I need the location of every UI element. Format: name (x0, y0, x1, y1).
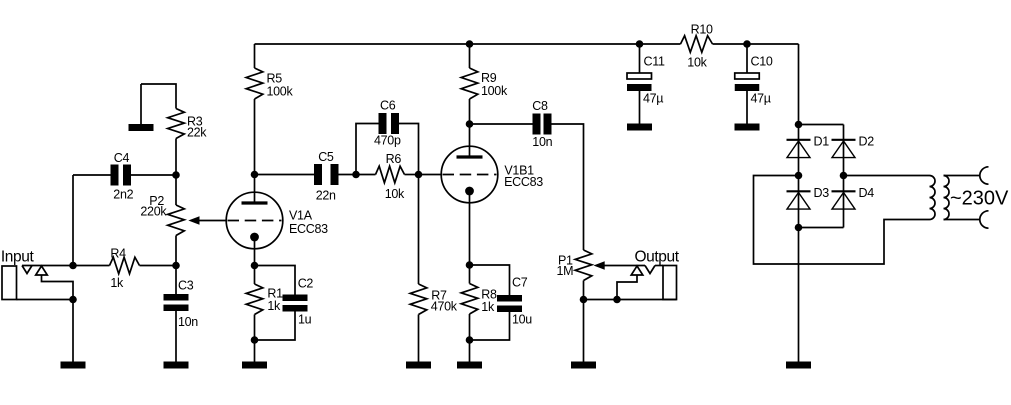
svg-text:C5: C5 (318, 150, 334, 164)
capacitor C3 (164, 294, 189, 311)
svg-text:47µ: 47µ (751, 92, 771, 106)
svg-text:D2: D2 (859, 135, 875, 149)
label R3 (187, 115, 203, 129)
connector J1 input jack body (2, 266, 17, 300)
pin V1A grid dashed (228, 220, 282, 222)
label C3 value 10n (178, 315, 198, 329)
label C5 (318, 150, 334, 164)
ground at R3 top (129, 124, 154, 131)
svg-text:470k: 470k (431, 300, 458, 314)
pin V1A anode plate (242, 201, 268, 204)
wire C11 top lead (639, 44, 641, 73)
wire node to P2 top (175, 175, 177, 205)
wire input jack sleeve rail (17, 299, 74, 301)
wire R3 bottom to node (175, 139, 177, 176)
svg-text:ECC83: ECC83 (504, 175, 543, 189)
wire input sleeve to ground (72, 300, 74, 362)
node P1 bottom junction (580, 296, 588, 304)
capacitor C4 (111, 165, 132, 186)
label C4 (114, 151, 130, 165)
svg-text:V1A: V1A (289, 209, 313, 223)
wire P2 bottom to node (175, 236, 177, 266)
wire anode node to C5 (255, 174, 316, 176)
svg-text:~230V: ~230V (950, 188, 1009, 210)
resistor R6 (376, 166, 405, 183)
node rail/R9 junction (466, 40, 474, 48)
label C2 (298, 277, 314, 291)
label R9 (481, 71, 497, 85)
wire P1 wiper arrow (594, 261, 646, 269)
node bridge top junction (795, 121, 803, 129)
wire B+ rail right segment (713, 43, 799, 45)
svg-text:10k: 10k (687, 56, 707, 70)
ground under C10 (735, 124, 760, 131)
svg-text:C3: C3 (178, 279, 194, 293)
wire C7 top branch (470, 265, 510, 295)
wire R8 node to ground (469, 340, 471, 362)
wire C11 bottom lead (639, 91, 641, 124)
svg-text:ECC83: ECC83 (289, 222, 328, 236)
wire V1B1 grid lead (419, 174, 442, 176)
label R10 (691, 23, 713, 37)
capacitor C6 (379, 113, 400, 134)
svg-text:C4: C4 (114, 151, 130, 165)
svg-text:470p: 470p (374, 134, 401, 148)
terminal mains top (980, 167, 989, 184)
svg-text:R4: R4 (110, 247, 126, 261)
svg-text:R10: R10 (691, 23, 713, 37)
label R1 value 1k (267, 299, 281, 313)
svg-text:C8: C8 (532, 99, 548, 113)
wire C4 right lead (131, 174, 176, 176)
capacitor C10 electrolytic (735, 73, 760, 91)
terminal mains bottom (980, 211, 989, 228)
label R8 (481, 288, 497, 302)
label C11 (644, 55, 665, 69)
wire P2 wiper arrow (188, 216, 226, 224)
potentiometer P2 (168, 205, 185, 236)
label V1B1 (504, 164, 534, 178)
ground under C11 (627, 124, 652, 131)
node A C5/R6/C6 junction (352, 171, 360, 179)
wire mid-right to secondary top (844, 175, 930, 177)
label P2 (149, 194, 164, 208)
transformer TR1 secondary winding (930, 176, 936, 220)
svg-text:C6: C6 (380, 99, 396, 113)
label C2 value 1u (298, 313, 312, 327)
wire R6 right lead (405, 174, 419, 176)
connector input jack tip contact V (22, 266, 32, 274)
node V1A cathode junction (251, 262, 259, 270)
wire R3 grounded top bend (141, 84, 176, 109)
connector output jack switch contact triangle (631, 266, 643, 275)
node V1B1 cathode junction (466, 261, 474, 269)
resistor R4 (110, 257, 140, 274)
wire C7 bottom branch (470, 312, 510, 340)
svg-text:R6: R6 (386, 152, 402, 166)
node bridge mid-left junction (795, 172, 803, 180)
label D1 (814, 135, 830, 149)
capacitor C8 (533, 114, 552, 135)
wire input switch step to sleeve (42, 275, 74, 300)
wire R1 node to ground (254, 340, 256, 362)
wire R4 to P2 node (140, 265, 177, 267)
wire output sleeve rail (584, 299, 677, 301)
wire V1B1 cathode lead (469, 191, 471, 265)
label C3 (178, 279, 194, 293)
label C6 value 470p (374, 134, 401, 148)
label R4 (110, 247, 126, 261)
label V1A (289, 209, 313, 223)
svg-text:1u: 1u (298, 313, 312, 327)
transformer TR1 primary winding (944, 176, 950, 220)
wire V1A anode lead (254, 175, 256, 203)
potentiometer P1 (575, 250, 592, 281)
node B R6/C6/grid/R7 junction (415, 171, 423, 179)
wire bridge right column (843, 125, 845, 228)
pin V1A cathode dot (250, 233, 259, 242)
pin V1B1 anode plate (457, 155, 483, 158)
wire R7 top lead (418, 175, 420, 285)
label R9 value 100k (481, 84, 508, 98)
wire C6 left branch (356, 124, 379, 175)
node C4/R3/P2 junction (172, 171, 180, 179)
label Output port (635, 249, 680, 266)
wire R8 bottom lead (469, 314, 471, 340)
ground under R7 (406, 362, 431, 369)
wire bridge bottom rail (799, 227, 844, 229)
wire C5 to node A (337, 174, 356, 176)
wire C4 left lead (73, 174, 111, 176)
wire C10 bottom lead (746, 91, 748, 124)
diode D3 (787, 191, 811, 209)
svg-text:10n: 10n (178, 315, 198, 329)
node input sleeve junction (69, 296, 77, 304)
label C8 (532, 99, 548, 113)
connector output jack tip contact V (645, 266, 655, 274)
wire bridge bottom to ground (798, 228, 800, 362)
node V1A anode junction (251, 171, 259, 179)
label C6 (380, 99, 396, 113)
node bridge mid-right junction (840, 172, 848, 180)
resistor R10 (681, 36, 713, 53)
ground under R8 (457, 362, 482, 369)
node input tip junction (69, 262, 77, 270)
wire C10 top lead (746, 44, 748, 73)
label R7 (431, 289, 447, 303)
label C7 (512, 276, 528, 290)
label D4 (859, 186, 875, 200)
svg-text:D1: D1 (814, 135, 830, 149)
diode D4 (832, 191, 856, 209)
svg-text:1k: 1k (110, 276, 124, 290)
label R7 value 470k (431, 300, 458, 314)
svg-text:22n: 22n (316, 189, 336, 203)
wire V1B1 anode lead (469, 124, 471, 156)
wire AC loop mid-left to secondary bottom (754, 176, 930, 265)
wire R8 top lead (469, 265, 471, 284)
svg-text:10u: 10u (512, 313, 532, 327)
svg-text:D4: D4 (859, 186, 875, 200)
label mains voltage ~230V (950, 188, 1009, 210)
label V1B1 type ECC83 (504, 175, 543, 189)
label R6 (386, 152, 402, 166)
svg-text:100k: 100k (481, 84, 508, 98)
resistor R9 (461, 68, 478, 99)
wire R9 bottom lead (469, 99, 471, 124)
resistor R1 (246, 284, 263, 315)
resistor R3 (168, 109, 185, 139)
svg-text:1k: 1k (481, 300, 495, 314)
wire C4 branch vertical (72, 175, 74, 266)
wire R1 top lead (254, 266, 256, 285)
ground under bridge (786, 362, 811, 369)
svg-text:R5: R5 (267, 72, 283, 86)
capacitor C5 (314, 164, 339, 185)
node V1B1 anode junction (466, 120, 474, 128)
capacitor C7 (497, 295, 522, 312)
connector input jack switch contact triangle (36, 266, 48, 275)
label R4 value 1k (110, 276, 124, 290)
wire P1 bottom lead (583, 281, 585, 300)
label D2 (859, 135, 875, 149)
label C7 value 10u (512, 313, 532, 327)
ground under C3 (164, 362, 189, 369)
wire C3 bottom lead (175, 311, 177, 362)
wire bridge left column (798, 125, 800, 228)
node output sleeve junction (613, 296, 621, 304)
resistor R5 (246, 68, 263, 99)
svg-text:Input: Input (1, 249, 35, 266)
ground under R1 (242, 362, 267, 369)
node rail/C11 junction (636, 40, 644, 48)
wire R5 bottom to V1A anode node (254, 99, 256, 175)
svg-text:1k: 1k (267, 299, 281, 313)
label C10 (751, 55, 773, 69)
svg-text:10n: 10n (532, 135, 552, 149)
label R10 value 10k (687, 56, 707, 70)
label R8 value 1k (481, 300, 495, 314)
resistor R7 (410, 284, 427, 315)
wire primary bottom lead (944, 219, 980, 221)
node R4/P2/C3 junction (172, 262, 180, 270)
svg-text:C11: C11 (644, 55, 665, 69)
wire B+ rail drop to rectifier (798, 44, 800, 125)
label C11 value 47u (643, 92, 663, 106)
connector J2 output jack body (663, 266, 677, 300)
wire C2 bottom branch (255, 312, 296, 341)
triode V1A envelope (226, 192, 283, 249)
wire bridge top to right column (799, 124, 844, 126)
label P2 value 220k (140, 205, 167, 219)
label R6 value 10k (385, 187, 405, 201)
wire P1 node to ground (583, 300, 585, 362)
node bridge bottom junction (795, 224, 803, 232)
node R1/C2 bottom junction (251, 336, 259, 344)
wire B+ rail left segment (255, 43, 681, 45)
svg-text:2n2: 2n2 (113, 188, 133, 202)
pin V1B1 grid dashed (443, 174, 497, 176)
svg-text:C10: C10 (751, 55, 773, 69)
svg-text:22k: 22k (187, 126, 207, 140)
svg-text:1M: 1M (557, 264, 574, 278)
label R5 value 100k (267, 85, 294, 99)
triode V1B1 envelope (441, 146, 498, 203)
wire C3 top lead (175, 266, 177, 295)
wire R9 top lead (469, 44, 471, 68)
wire R3 ground lead (140, 84, 142, 124)
diode D1 (787, 140, 811, 158)
wire C8 to P1 bend (552, 124, 584, 250)
wire R6 left lead (356, 174, 376, 176)
wire primary top lead (944, 175, 980, 177)
svg-text:100k: 100k (267, 85, 294, 99)
label R1 (267, 287, 283, 301)
wire C2 top branch (255, 266, 296, 295)
resistor R8 (461, 284, 478, 315)
capacitor C2 (283, 295, 308, 312)
node R8/C7 bottom junction (466, 336, 474, 344)
label R3 value 22k (187, 126, 207, 140)
label C8 value 10n (532, 135, 552, 149)
wire R5 top lead (254, 44, 256, 68)
label P1 (558, 254, 573, 268)
svg-text:47µ: 47µ (643, 92, 663, 106)
svg-text:R9: R9 (481, 71, 497, 85)
wire R7 bottom lead (418, 315, 420, 362)
ground under input jack (61, 362, 86, 369)
svg-text:D3: D3 (814, 186, 830, 200)
svg-text:220k: 220k (140, 205, 167, 219)
wire R1 bottom lead (254, 315, 256, 341)
wire V1A cathode lead (254, 237, 256, 266)
pin V1B1 cathode dot (465, 187, 474, 196)
diode D2 (832, 140, 856, 158)
wire output switch step to sleeve (617, 275, 637, 300)
label C10 value 47u (751, 92, 771, 106)
svg-text:C2: C2 (298, 277, 314, 291)
svg-text:C7: C7 (512, 276, 528, 290)
svg-text:10k: 10k (385, 187, 405, 201)
label D3 (814, 186, 830, 200)
capacitor C11 electrolytic (627, 73, 652, 91)
wire input tip to R4 (22, 265, 110, 267)
label R5 (267, 72, 283, 86)
label P1 value 1M (557, 264, 574, 278)
wire C6 right branch (399, 124, 419, 175)
wire anode node to C8 (470, 123, 533, 125)
label C5 value 22n (316, 189, 336, 203)
label Input port (1, 249, 35, 266)
svg-text:Output: Output (635, 249, 680, 266)
wire output V to jack body (655, 265, 663, 267)
label C4 value 2n2 (113, 188, 133, 202)
ground under P1 (571, 362, 596, 369)
label V1A type ECC83 (289, 222, 328, 236)
node rail/C10 junction (743, 40, 751, 48)
